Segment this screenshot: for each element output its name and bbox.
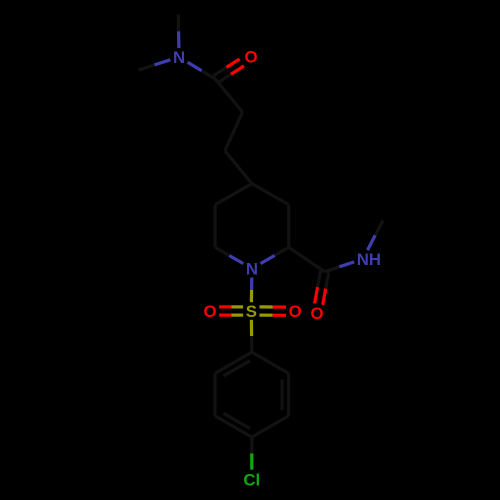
svg-text:NH: NH	[357, 250, 381, 269]
svg-text:N: N	[173, 48, 185, 67]
bond CH2-C4 ring	[225, 151, 252, 184]
double bond S=O left	[231, 305, 243, 308]
benzene bond C1-C2	[252, 352, 289, 373]
svg-text:Cl: Cl	[243, 471, 260, 490]
double bond C=O (right amide)	[318, 271, 321, 287]
double bond S=O right	[260, 314, 273, 317]
bond CH2-CH2	[225, 112, 243, 151]
svg-text:N: N	[246, 260, 258, 279]
benzene bond C5-C6	[213, 373, 216, 416]
bond C4-Cl	[250, 437, 253, 453]
benzene bond C4=C5	[215, 416, 252, 437]
double bond C=O (top amide)	[218, 74, 231, 83]
svg-text:O: O	[203, 302, 216, 321]
svg-text:O: O	[289, 302, 302, 321]
piperidine bond C5-C4	[215, 184, 252, 205]
piperidine bond N-C6	[229, 256, 243, 264]
bond S-C aryl	[250, 320, 253, 336]
bond C-NH	[325, 267, 340, 272]
piperidine bond C6-C5	[214, 205, 217, 248]
bond N-S	[250, 278, 253, 290]
piperidine bond C4-C3	[252, 184, 289, 205]
bond NH-CH3	[368, 235, 376, 250]
piperidine bond C3-C2	[287, 205, 290, 248]
bond C(=O)-CH2	[216, 79, 243, 112]
piperidine bond C2-N	[275, 247, 289, 255]
bond N1-C carbonyl	[188, 62, 202, 71]
benzene bond C3-C4	[252, 416, 289, 437]
bond N1-CH3 (methyl up)	[177, 15, 181, 32]
svg-text:S: S	[246, 302, 257, 321]
svg-text:O: O	[310, 304, 323, 323]
benzene bond C2=C3	[287, 373, 290, 416]
benzene bond C6=C1	[215, 352, 252, 373]
bond C2-C amide	[289, 247, 325, 271]
bond N1-CH3 (methyl left)	[139, 65, 155, 70]
svg-text:O: O	[244, 48, 257, 67]
